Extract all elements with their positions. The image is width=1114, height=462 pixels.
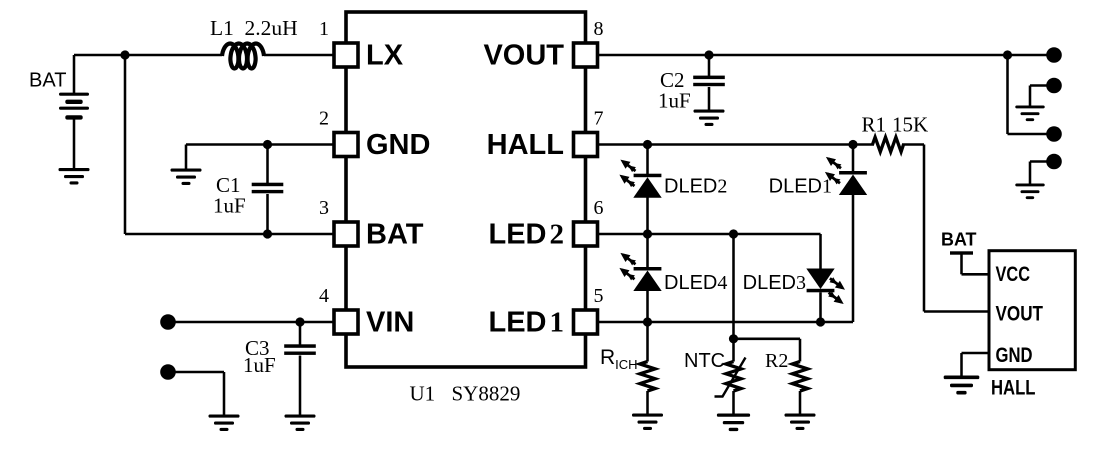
node connector bus junction [1003, 50, 1012, 59]
pin 5 square (LED1) [574, 310, 598, 334]
ground (NTC) [717, 414, 750, 432]
svg-text:DLED1: DLED1 [769, 176, 832, 198]
node LED1/RICH junction [643, 317, 652, 326]
wire C2 top stub [708, 55, 711, 76]
wire RICH top stub [646, 322, 649, 362]
wire terminal 2 horizontal [168, 371, 224, 374]
capacitor C1 [252, 183, 284, 194]
capacitor C3 [284, 344, 316, 355]
wire connector pin4 drop [1029, 162, 1032, 184]
wire C1 bottom stub [266, 194, 269, 234]
svg-text:GND: GND [366, 129, 430, 161]
terminal VIN input [160, 314, 176, 330]
svg-text:VIN: VIN [366, 307, 414, 339]
ground (R2) [785, 414, 816, 431]
wire LED2 corner down to DLED3 [819, 234, 822, 269]
svg-text:VOUT: VOUT [996, 303, 1044, 326]
wire C2 bottom stub [708, 87, 711, 110]
svg-text:1: 1 [319, 18, 329, 40]
wire hall GND drop [960, 353, 963, 376]
wire connector bus vertical [1006, 55, 1009, 134]
LED DLED3 [806, 269, 845, 305]
svg-text:3: 3 [319, 197, 329, 219]
wire C3 bottom stub [299, 356, 302, 415]
wire NTC to R2 branch [734, 338, 801, 341]
wire LED2 row [598, 233, 821, 236]
terminal pad 4 [1046, 154, 1062, 170]
svg-text:BAT: BAT [941, 229, 977, 250]
svg-text:RICH: RICH [600, 346, 638, 372]
wire DLED1 anode wire [852, 145, 855, 172]
photo-LED DLED1 [825, 157, 867, 195]
photo-LED DLED2 [619, 160, 661, 198]
wire VIN row [168, 321, 334, 324]
wire DLED2 cathode wire [646, 198, 649, 235]
svg-text:L1: L1 [210, 16, 234, 40]
wire R1 corner down to VOUT hall [923, 145, 926, 312]
wire connector pin3 horizontal [1008, 133, 1054, 136]
pin 3 square (BAT) [334, 222, 358, 246]
wire connector pin2 stub [1030, 84, 1053, 87]
svg-text:GND: GND [996, 344, 1033, 367]
svg-text:R2: R2 [765, 350, 788, 372]
svg-text:HALL: HALL [991, 376, 1036, 400]
wire R1 to corner [902, 143, 924, 146]
pin 1 square (LX) [334, 43, 358, 67]
wire BAT top vertical [73, 55, 76, 94]
NTC diagonal strike [715, 358, 746, 397]
svg-text:U1: U1 [410, 382, 436, 406]
pin 2 square (GND) [334, 133, 358, 157]
ground (GND pin / C1) [171, 169, 202, 186]
wire BAT row to pin BAT [125, 233, 334, 236]
svg-text:R1: R1 [862, 113, 887, 137]
svg-text:6: 6 [594, 197, 604, 219]
svg-text:LX: LX [366, 40, 404, 72]
pin 8 square (VOUT) [574, 43, 598, 67]
svg-text:VOUT: VOUT [483, 40, 564, 72]
photo-LED DLED4 [619, 253, 661, 291]
wire DLED2 anode wire [646, 145, 649, 175]
pin 7 square (HALL) [574, 133, 598, 157]
svg-text:SY8829: SY8829 [452, 382, 521, 406]
wire R2 to ground [799, 391, 802, 414]
svg-text:DLED2: DLED2 [664, 176, 727, 198]
svg-text:LED2: LED2 [489, 219, 565, 251]
node C3 junction [295, 317, 304, 326]
svg-text:1uF: 1uF [213, 194, 246, 218]
wire connector pin4 stub [1030, 160, 1053, 163]
node C2 junction [704, 50, 713, 59]
pin 4 square (VIN) [334, 310, 358, 334]
resistor R1 [873, 137, 904, 152]
wire hall GND lead [962, 352, 990, 355]
thermistor NTC [726, 362, 741, 391]
wire BAT net vertical [124, 55, 127, 234]
svg-text:8: 8 [594, 18, 604, 40]
wire hall BAT stub down [960, 255, 963, 275]
svg-text:HALL: HALL [487, 129, 564, 161]
wire RICH to ground [646, 391, 649, 414]
wire NTC net vertical [732, 234, 735, 362]
wire VOUT row [598, 54, 1053, 57]
node NTC/R2 junction [729, 334, 738, 343]
op-amp U1 SY8829 IC body [346, 12, 586, 367]
ground (C2) [694, 110, 725, 127]
wire DLED3 bottom wire [819, 292, 822, 322]
ground (pad 4) [1015, 184, 1044, 200]
wire LED1 row [598, 321, 853, 324]
terminal pad 2 [1046, 78, 1062, 94]
wire DLED1 cathode wire [852, 195, 855, 323]
node BAT junction [120, 50, 129, 59]
wire DLED4 top wire [646, 234, 649, 267]
node LED2/NTC junction [729, 229, 738, 238]
svg-text:2.2uH: 2.2uH [245, 16, 298, 40]
node DLED1/R1 junction [848, 140, 857, 149]
svg-text:7: 7 [594, 108, 604, 130]
ground (pad 2) [1015, 106, 1044, 122]
wire connector pin2 drop [1029, 86, 1032, 106]
terminal pad 3 [1046, 126, 1062, 142]
wire R2 top stub [799, 339, 802, 362]
node LED1/DLED3 junction [816, 317, 825, 326]
svg-text:BAT: BAT [29, 70, 66, 92]
resistor RICH [640, 362, 655, 391]
wire GND row drop to ground [185, 145, 188, 169]
ground (RICH) [632, 414, 663, 431]
svg-text:DLED3: DLED3 [743, 272, 806, 294]
svg-text:BAT: BAT [366, 219, 424, 251]
ground (input terminal) [209, 415, 240, 432]
wire C1 top stub [266, 145, 269, 184]
ground (C3) [285, 415, 316, 432]
wire hall VCC lead [962, 273, 990, 276]
ground (hall GND) [944, 376, 980, 395]
terminal pad 1 [1046, 47, 1062, 63]
inductor L1 [222, 44, 264, 69]
wire hall VOUT lead [924, 310, 989, 313]
svg-text:1uF: 1uF [243, 353, 276, 377]
hall sensor U2 body [989, 251, 1075, 370]
node C1 bottom junction [263, 229, 272, 238]
svg-text:LED1: LED1 [489, 307, 565, 339]
wire NTC to ground [732, 391, 735, 414]
svg-text:2: 2 [319, 108, 329, 130]
svg-text:1uF: 1uF [658, 89, 691, 113]
svg-text:5: 5 [594, 285, 604, 307]
terminal ground input [160, 364, 176, 380]
wire GND row [186, 143, 334, 146]
capacitor C2 [693, 76, 725, 87]
node DLED2 junction [643, 140, 652, 149]
svg-text:VCC: VCC [996, 263, 1031, 286]
resistor R2 [792, 362, 807, 391]
svg-text:4: 4 [319, 285, 329, 307]
node LED2/DLED4 junction [643, 229, 652, 238]
power flag BAT bar [950, 251, 973, 254]
svg-text:DLED4: DLED4 [664, 272, 727, 294]
wire top row BAT to L1 [74, 54, 222, 57]
wire C3 top stub [299, 322, 302, 345]
ground (battery) [59, 168, 90, 185]
svg-text:NTC: NTC [684, 350, 725, 372]
wire DLED4 bottom wire [646, 291, 649, 323]
battery BT1 [59, 93, 89, 120]
node C1 top junction [263, 140, 272, 149]
pin 6 square (LED2) [574, 222, 598, 246]
wire HALL row [598, 143, 874, 146]
wire terminal 2 drop to ground [223, 372, 226, 415]
wire battery to ground [73, 120, 76, 169]
wire L1 to pin LX [264, 54, 334, 57]
svg-text:15K: 15K [892, 113, 928, 137]
